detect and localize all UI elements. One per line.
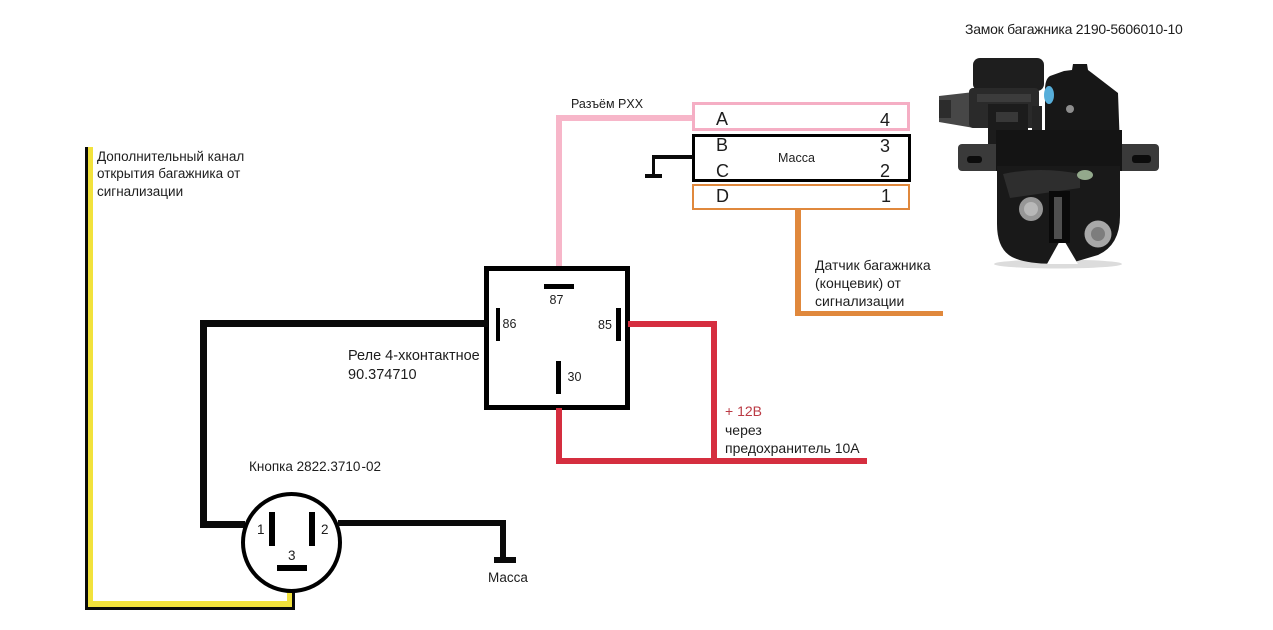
pin label C: [716, 162, 729, 180]
label: trunk lock part number: [965, 22, 1183, 36]
label: trunk sensor description: [815, 256, 931, 311]
wire: yellow channel black outline right stub to button: [292, 589, 295, 608]
wire: ground branch horizontal from rows B/C: [652, 155, 693, 159]
relay pin 30 label: [568, 371, 582, 384]
relay pin 86 bar: [496, 308, 500, 341]
wire: pink vertical segment to relay pin 87: [556, 118, 562, 266]
relay pin 30 bar: [556, 361, 561, 394]
lock photo: right plate dome: [1045, 64, 1120, 150]
lock photo: actuator lower housing: [969, 88, 1039, 128]
button pin 2 bar: [309, 512, 315, 546]
wire: black horizontal into button pin 1: [200, 521, 245, 528]
relay pin 87 label: [550, 294, 564, 307]
lock photo: latch slot: [1049, 191, 1070, 243]
label: Масса (button ground): [488, 571, 528, 585]
label: +12V: [725, 404, 762, 418]
relay U1 body: [484, 266, 630, 410]
lock photo: middle bracket with wings: [958, 144, 1159, 171]
photo: trunk lock 2190-5606010-10: [930, 48, 1165, 278]
label: через предохранитель 10А: [725, 421, 860, 457]
connector rows B C (black box): [692, 134, 911, 182]
lock photo: bottom notch: [1047, 237, 1078, 264]
button pin 3 bar: [277, 565, 307, 571]
wire: ground branch vertical: [652, 155, 656, 176]
pin label B: [716, 136, 728, 154]
pin label A: [716, 110, 728, 128]
ground symbol (connector Масса): [645, 174, 662, 179]
label: alarm channel description: [97, 148, 244, 201]
wire: black horizontal from button pin 2: [338, 520, 506, 526]
wire: red horizontal from relay pin 85: [628, 321, 717, 328]
lock photo: right screw boss: [1085, 221, 1112, 248]
relay pin 85 label: [598, 319, 612, 332]
wire: black vertical down to button: [200, 320, 207, 527]
button S1 body (circle): [241, 492, 342, 593]
pin label 1: [881, 187, 891, 205]
lock photo: left connector plug: [939, 92, 974, 128]
wire: orange vertical from row D: [795, 209, 801, 316]
wire: red bottom horizontal +12V feed: [556, 458, 867, 465]
wire: yellow stub up to button pin 3: [287, 591, 292, 607]
button pin 1 bar: [269, 512, 275, 546]
lock photo: lower body: [997, 166, 1120, 264]
label: Масса (connector): [778, 152, 815, 165]
relay pin 87 bar: [544, 284, 574, 289]
relay pin 86 label: [503, 318, 517, 331]
pin label 2: [880, 162, 890, 180]
wire: red vertical from relay pin 30: [556, 408, 563, 464]
pin label 3: [880, 137, 890, 155]
wire: yellow vertical segment from alarm: [88, 147, 93, 601]
wire: red right vertical: [711, 321, 718, 464]
pin label D: [716, 187, 729, 205]
wire: yellow channel black outline bottom horizontal: [85, 607, 295, 610]
label: button type: [249, 460, 381, 474]
wire: black horizontal from relay pin 86: [200, 320, 488, 327]
wire: yellow bottom horizontal segment: [88, 601, 287, 607]
button pin 1 label: [257, 523, 265, 537]
lock photo: drop shadow: [994, 260, 1122, 269]
relay pin 85 bar: [616, 308, 621, 341]
lock photo: actuator top housing: [973, 58, 1044, 91]
button pin 3 label: [288, 549, 296, 563]
label: relay type: [348, 347, 480, 385]
wire: orange horizontal to trunk sensor: [795, 311, 943, 317]
pin label 4: [880, 111, 890, 129]
button pin 2 label: [321, 523, 329, 537]
wire: black vertical to ground: [500, 520, 506, 558]
wire: pink horizontal segment to connector row A: [556, 115, 692, 121]
lock photo: left screw boss: [1019, 197, 1043, 221]
lock photo: green speck: [1077, 170, 1093, 180]
wire: yellow channel black outline left vertical: [85, 147, 88, 609]
connector row A (pink box): [692, 102, 910, 131]
lock photo: central bracket: [988, 104, 1028, 150]
ground symbol (button Масса): [494, 557, 516, 563]
connector row D (orange box): [692, 184, 910, 210]
label: Разъём PXX: [571, 98, 643, 111]
